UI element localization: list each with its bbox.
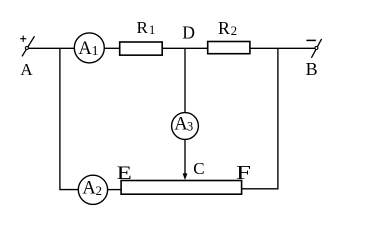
- wire right branch down to rheostat end F: [242, 48, 278, 189]
- arrowhead of slider at C: [183, 173, 188, 180]
- svg-text:C: C: [193, 159, 204, 178]
- ammeter A1: [74, 33, 104, 63]
- ammeter A3: [172, 113, 199, 140]
- terminal A contact dot: [25, 47, 28, 50]
- rheostat body E-F: [121, 181, 242, 195]
- terminal B contact dot: [315, 47, 318, 50]
- svg-text:R2: R2: [218, 18, 237, 38]
- wire A-terminal to ammeter A1: [27, 47, 74, 49]
- svg-text:A2: A2: [82, 179, 102, 199]
- label + (plus of terminal A): [20, 36, 26, 42]
- terminal A slash: [22, 36, 35, 56]
- wire A3 to slider arrow C: [184, 139, 186, 175]
- ammeter A2: [78, 175, 107, 204]
- wire R2 to B-terminal: [250, 47, 316, 49]
- terminal B minus bar: [306, 39, 316, 41]
- svg-text:F: F: [236, 163, 251, 184]
- svg-text:A1: A1: [78, 39, 98, 59]
- wire R1 to R2 through node D: [163, 47, 208, 49]
- wire node D to A3: [184, 48, 186, 112]
- resistor R2: [208, 42, 250, 54]
- svg-text:A3: A3: [174, 115, 193, 135]
- wire A2 to rheostat end E: [108, 189, 122, 191]
- svg-text:R1: R1: [137, 18, 156, 37]
- svg-text:B: B: [306, 59, 318, 79]
- wire left branch down to A2: [60, 48, 78, 189]
- wire A1 to R1: [104, 47, 119, 49]
- svg-text:E: E: [117, 163, 132, 184]
- svg-text:A: A: [20, 60, 33, 79]
- resistor R1: [120, 42, 163, 55]
- terminal B slash: [311, 39, 321, 58]
- svg-text:D: D: [182, 22, 195, 42]
